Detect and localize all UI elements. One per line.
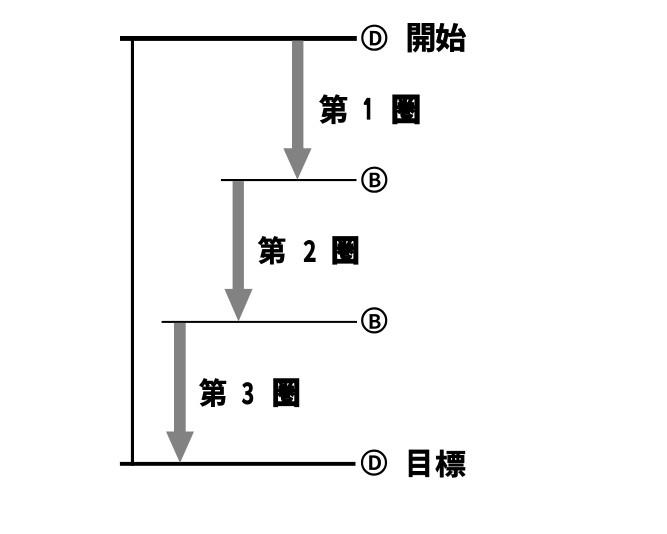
label 始 (start text char 2)	[436, 23, 466, 51]
left vertical line	[131, 36, 134, 466]
label 第 (lap 3 text)	[199, 378, 226, 406]
label 標 (goal text char 2)	[436, 450, 466, 477]
level line 2	[221, 179, 357, 181]
bottom thick line (goal level)	[120, 462, 356, 466]
label 圏 (lap 3 text)	[274, 379, 299, 407]
label 第 (lap 1 text)	[319, 95, 347, 124]
arrow 2 (lap 2)	[224, 181, 252, 321]
label 1 (lap 1 number)	[364, 98, 371, 120]
label 開 (start text char 1)	[408, 23, 434, 52]
node D (start)	[362, 26, 386, 50]
arrow 1 (lap 1)	[283, 41, 311, 180]
label 圏 (lap 1 text)	[393, 95, 419, 124]
level line 3	[162, 321, 357, 323]
label 2 (lap 2 number)	[304, 240, 315, 261]
node D (goal)	[362, 451, 386, 475]
label 第 (lap 2 text)	[258, 236, 285, 264]
label 目 (goal text char 1)	[409, 450, 429, 477]
node B (after lap 2)	[362, 308, 386, 332]
arrow 3 (lap 3)	[166, 323, 194, 463]
label 圏 (lap 2 text)	[333, 237, 358, 265]
label 3 (lap 3 number)	[242, 382, 253, 404]
top thick line (start level)	[120, 36, 357, 41]
node B (after lap 1)	[362, 168, 386, 192]
